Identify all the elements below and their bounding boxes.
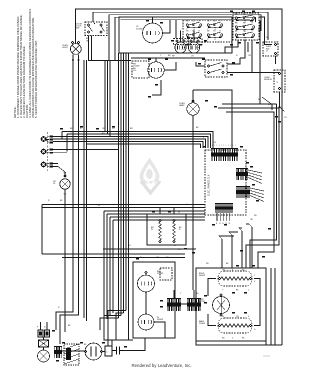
wire lamp loop bbox=[152, 80, 161, 95]
infinite switch block S2 bbox=[233, 13, 259, 40]
wire P2 pin 1 bbox=[216, 213, 218, 221]
infinite switch S2a bbox=[235, 14, 255, 24]
splice dots bbox=[72, 59, 79, 61]
oven lamp bbox=[187, 103, 199, 115]
svg-text:SW: SW bbox=[76, 28, 79, 30]
wire M row bbox=[181, 303, 187, 305]
left oven upper aux bbox=[160, 268, 172, 280]
wire top nest 2 bbox=[93, 12, 268, 40]
wire S2 down b bbox=[240, 40, 245, 58]
terminal block TB bbox=[38, 330, 50, 337]
cooktop box bbox=[119, 17, 232, 53]
wire row2 bus a bbox=[131, 57, 205, 59]
wire lamp bus bbox=[193, 90, 232, 148]
wire control to oven 2 bbox=[239, 228, 242, 268]
wire oven internal b bbox=[254, 279, 260, 326]
element LF label bbox=[136, 26, 142, 30]
wire control to oven 1 bbox=[246, 224, 252, 268]
oven sensor box bbox=[274, 70, 285, 92]
oven sensor label bbox=[264, 77, 273, 81]
wire stair h bbox=[108, 311, 126, 347]
footer artifact bbox=[263, 355, 270, 358]
oven lamp label bbox=[179, 103, 185, 107]
relay box K1 bbox=[85, 22, 107, 36]
wire S2 to right a bbox=[259, 17, 265, 40]
P2 pin labels bbox=[216, 223, 231, 225]
warming W1 label bbox=[151, 227, 154, 231]
svg-text:H2: H2 bbox=[243, 23, 245, 25]
wire control to oven 3 bbox=[229, 232, 238, 268]
wire left long c bbox=[42, 253, 185, 255]
broil element bbox=[218, 271, 252, 286]
wire band drop 3 bbox=[109, 217, 111, 316]
svg-text:J5: J5 bbox=[174, 245, 176, 247]
wire bundle D5 bbox=[128, 53, 130, 308]
wire L1 a bbox=[53, 136, 73, 138]
svg-text:W: W bbox=[97, 344, 99, 346]
convection label bbox=[198, 299, 206, 303]
lock motor label bbox=[53, 181, 56, 185]
wire bottom mid bbox=[104, 316, 112, 341]
wire diag 2 bbox=[262, 97, 272, 110]
svg-text:H2: H2 bbox=[243, 14, 245, 16]
wire lamp feed bbox=[192, 90, 194, 103]
wire cap row bbox=[112, 340, 133, 351]
infinite switch S1a bbox=[186, 21, 202, 31]
bake element bbox=[218, 318, 252, 333]
wire M2 up bbox=[193, 290, 195, 298]
left oven box bbox=[133, 262, 175, 338]
wire warm feed a bbox=[159, 208, 161, 214]
wire P2 pin 4 bbox=[226, 213, 228, 221]
wire left edge bbox=[41, 205, 43, 255]
svg-text:W: W bbox=[70, 132, 72, 134]
wire oven bottom bbox=[196, 340, 266, 342]
svg-text:H2: H2 bbox=[192, 21, 194, 23]
broil wire labels bbox=[222, 270, 256, 292]
wire bundle C2 bbox=[107, 60, 109, 134]
svg-text:J2: J2 bbox=[178, 212, 180, 214]
wire L2 a bbox=[53, 163, 58, 165]
warming element W1 bbox=[159, 219, 162, 242]
wire N a bbox=[53, 149, 119, 151]
wire relay fan b1 bbox=[250, 188, 264, 191]
wire band 2 bbox=[107, 213, 205, 215]
oven light L1 bbox=[70, 44, 81, 55]
svg-text:H2: H2 bbox=[213, 31, 215, 33]
svg-text:W: W bbox=[122, 310, 124, 312]
wire bottom long bbox=[124, 338, 145, 351]
wire TB up a bbox=[40, 322, 42, 330]
wire mid b bbox=[218, 107, 279, 109]
wire bundle D4 bbox=[125, 53, 127, 311]
wire bundle D2 bbox=[120, 53, 122, 316]
element RF label bbox=[172, 56, 175, 58]
wire bottom frame bbox=[196, 344, 282, 346]
wire row2 bus b bbox=[88, 60, 131, 62]
left oven lower label bbox=[157, 317, 163, 321]
wire TB-F1 bbox=[43, 337, 45, 340]
notes text block bbox=[13, 8, 38, 118]
svg-text:3400W: 3400W bbox=[157, 319, 163, 321]
svg-text:ELEC. RANGE CLK: ELEC. RANGE CLK bbox=[208, 174, 211, 196]
wire sensor down bbox=[279, 92, 281, 107]
wire bundle H1 drop bbox=[61, 132, 63, 140]
svg-text:8: 8 bbox=[232, 270, 233, 272]
wire mid c bbox=[226, 112, 274, 230]
wire stair g bbox=[116, 313, 124, 340]
wire under warm box bbox=[103, 248, 196, 250]
P1 tiny labels bbox=[212, 145, 236, 147]
surface element LF bbox=[143, 23, 163, 43]
wire bundle A1 bbox=[72, 60, 74, 134]
wire S2 down a bbox=[225, 40, 238, 53]
door lock motor bbox=[60, 179, 70, 189]
element RF cap bbox=[174, 39, 189, 45]
electronic control box bbox=[205, 150, 246, 215]
svg-text:H2: H2 bbox=[213, 21, 215, 23]
svg-text:W: W bbox=[98, 205, 100, 207]
element LR cap bbox=[189, 39, 203, 45]
lock motor mark2 bbox=[64, 194, 67, 196]
right oven box bbox=[196, 268, 266, 345]
left oven element upper bbox=[138, 275, 155, 292]
wire stair d bbox=[86, 143, 88, 321]
warming element W2 bbox=[173, 219, 176, 242]
svg-text:W: W bbox=[222, 316, 224, 318]
wire bundle H5 bbox=[84, 142, 203, 149]
svg-text:Rendered by LeadVenture, Inc.: Rendered by LeadVenture, Inc. bbox=[132, 363, 192, 368]
wire relay fan a3 bbox=[248, 175, 262, 180]
wire light lead a bbox=[72, 55, 74, 61]
wire S3 to sensor bbox=[227, 72, 280, 74]
bottom lamp bbox=[38, 350, 50, 362]
wire left oven mid bbox=[145, 292, 147, 314]
wire mid a bbox=[222, 103, 277, 105]
wire relay fan b4 bbox=[250, 196, 264, 202]
wire S1 to LR bbox=[193, 31, 195, 43]
wire relay to bus a bbox=[88, 36, 90, 61]
wire right r2 bbox=[278, 108, 280, 240]
motor connector M1 bbox=[167, 299, 181, 312]
bake label bbox=[199, 320, 205, 325]
wire L1 top run bbox=[76, 9, 283, 345]
wire bundle D3 bbox=[123, 53, 125, 313]
fuse F1 bbox=[39, 340, 49, 347]
wire right r1 bbox=[276, 104, 278, 235]
bake wire labels bbox=[222, 316, 256, 340]
control connector P1 bbox=[211, 149, 238, 162]
wire LR feed bbox=[175, 20, 177, 38]
wire stair i bbox=[128, 308, 130, 340]
surface element RF bbox=[175, 42, 186, 53]
control relay RY1 bbox=[236, 169, 248, 181]
wire N b bbox=[53, 152, 67, 154]
wire L1 b bbox=[53, 138, 87, 140]
relay K1 contacts bbox=[87, 23, 104, 33]
wire L2 GN bbox=[53, 167, 65, 178]
wire sensor diag bbox=[280, 107, 285, 112]
wire RR top bbox=[155, 58, 157, 62]
wire left long b bbox=[42, 207, 205, 209]
oven lamp terminals bbox=[192, 100, 194, 102]
wire label blobs bbox=[52, 11, 281, 362]
svg-text:W: W bbox=[151, 229, 153, 231]
indicator light box bbox=[263, 42, 278, 56]
wire control to oven 4 bbox=[219, 236, 234, 268]
wire motor row bbox=[62, 350, 85, 352]
motor connector M2 bbox=[187, 299, 201, 312]
wire bundle B2 bbox=[86, 60, 88, 143]
wire P2 pin 2 bbox=[219, 213, 221, 221]
wire relay to bus b bbox=[91, 36, 93, 61]
warming W2 label bbox=[179, 227, 182, 231]
oven light label bbox=[62, 45, 69, 49]
wire oven right down a bbox=[270, 268, 272, 345]
wire oven internal a bbox=[208, 279, 216, 297]
svg-text:W: W bbox=[214, 142, 216, 144]
relay wire labels bbox=[86, 38, 90, 42]
svg-text:W: W bbox=[266, 37, 268, 39]
wire warm feed b bbox=[173, 208, 175, 214]
infinite switch S1d bbox=[207, 31, 223, 41]
element RR label bbox=[133, 64, 139, 73]
wire bundle D1 bbox=[118, 53, 120, 318]
wire band drop 4 bbox=[112, 220, 114, 313]
wire band 3 bbox=[110, 216, 205, 218]
wire color labels bbox=[48, 29, 287, 327]
control vertical label bbox=[208, 174, 211, 196]
svg-text:SENSOR: SENSOR bbox=[264, 79, 273, 81]
surface element RR bbox=[148, 62, 164, 78]
svg-text:W: W bbox=[140, 257, 142, 259]
left oven upper label bbox=[157, 271, 163, 275]
wire left long d bbox=[62, 257, 185, 259]
wire bundle C3 bbox=[109, 60, 111, 137]
infinite switch S1b bbox=[207, 21, 223, 31]
wire right r1 turn bbox=[250, 235, 277, 268]
wire bundle H2 drop bbox=[66, 134, 68, 152]
control connector P2 bbox=[215, 204, 233, 214]
wire bundle H4 bbox=[79, 139, 206, 148]
wire S3 left bbox=[196, 62, 205, 66]
relay K1 label bbox=[76, 24, 83, 30]
wire LF feed bbox=[152, 17, 154, 23]
infinite switch S2c bbox=[235, 31, 255, 41]
wire relay fan a2 bbox=[248, 173, 262, 177]
svg-text:2500W: 2500W bbox=[199, 323, 205, 325]
wire top nest 4 bbox=[115, 17, 256, 60]
svg-text:2: 2 bbox=[248, 290, 249, 292]
wire oven right down b bbox=[274, 268, 276, 345]
wire top nest 5 bbox=[121, 19, 250, 21]
wire bundle H1 bbox=[62, 132, 213, 149]
wire bundle B1 bbox=[83, 60, 85, 140]
wire RR right bbox=[164, 62, 176, 70]
wire lock motor down bbox=[64, 189, 66, 332]
wire P2 pin 5 bbox=[229, 213, 231, 221]
power terminal L1 bbox=[41, 136, 53, 144]
svg-text:H2: H2 bbox=[192, 31, 194, 33]
wire S3 right bbox=[227, 58, 240, 64]
svg-text:2100W: 2100W bbox=[136, 28, 142, 30]
wire relay fan b3 bbox=[250, 193, 264, 198]
element LR label bbox=[191, 56, 194, 58]
power connector CN1 bbox=[54, 347, 62, 359]
wire stair c bbox=[83, 140, 85, 318]
svg-text:6: 6 bbox=[232, 338, 233, 340]
svg-text:GY-: GY- bbox=[133, 70, 137, 72]
lock motor mark bbox=[64, 173, 67, 175]
wire S2 down c bbox=[251, 40, 253, 73]
wire bundle H3 bbox=[73, 137, 208, 149]
wire relay fan b2 bbox=[250, 191, 264, 195]
wire relay fan a4 bbox=[248, 178, 262, 184]
oven sensor terminals bbox=[277, 72, 281, 89]
wire band drop 2 bbox=[106, 214, 108, 319]
svg-text:3400W: 3400W bbox=[199, 275, 205, 277]
svg-text:5. VERIFY PROPER OPERATION AFT: 5. VERIFY PROPER OPERATION AFTER SERVICI… bbox=[34, 40, 38, 118]
wire stair a bbox=[56, 134, 73, 330]
wire band drop 1 bbox=[103, 211, 105, 322]
wire LF out bbox=[163, 20, 171, 33]
watermark flame logo bbox=[140, 158, 160, 194]
wire S1 to RF bbox=[180, 31, 182, 43]
fan motor bbox=[85, 343, 102, 360]
wire left oven out bbox=[154, 322, 165, 338]
wire band 1 bbox=[104, 210, 205, 212]
svg-text:1: 1 bbox=[254, 275, 255, 277]
wire M1 up bbox=[173, 290, 175, 298]
convection motor bbox=[213, 297, 230, 314]
terminal block dashed line bbox=[46, 132, 48, 171]
power cord bbox=[64, 344, 79, 365]
wire bundle H2 bbox=[67, 134, 211, 148]
wire stair b bbox=[60, 137, 79, 344]
broil label bbox=[199, 273, 205, 277]
wire left long a bbox=[42, 204, 205, 206]
TB labels bbox=[37, 327, 46, 329]
control relay RY2 bbox=[236, 187, 250, 199]
wire relay fan a1 bbox=[248, 170, 262, 173]
svg-text:LAMP: LAMP bbox=[179, 104, 185, 107]
wire S2 down d bbox=[247, 42, 249, 52]
wire S2 to right b bbox=[259, 20, 261, 22]
wire right long e bbox=[260, 21, 277, 104]
wire band 4 bbox=[113, 219, 205, 221]
left oven element lower bbox=[138, 314, 154, 330]
wire oven internal c bbox=[208, 314, 216, 326]
svg-text:L1: L1 bbox=[193, 39, 195, 41]
svg-text:L1: L1 bbox=[214, 39, 216, 41]
infinite switch block S1 bbox=[183, 20, 232, 42]
svg-text:H2: H2 bbox=[243, 31, 245, 33]
wire motor right bbox=[102, 351, 105, 353]
wire P2 pin 3 bbox=[222, 213, 224, 221]
bake element terminals bbox=[145, 271, 147, 273]
wire right r2 turn bbox=[246, 240, 279, 268]
indicator light terminals bbox=[266, 43, 277, 54]
element RR dash bbox=[132, 61, 149, 78]
svg-text:W: W bbox=[258, 99, 260, 101]
relay box K2 bbox=[105, 346, 112, 356]
wire stair e bbox=[100, 318, 119, 330]
power terminal L2 bbox=[41, 162, 53, 167]
wire lamp down bbox=[192, 115, 194, 290]
capacitor C1 bbox=[112, 347, 124, 355]
wire bundle H6 bbox=[87, 144, 201, 148]
wire indicator down bbox=[275, 56, 277, 64]
element LR terminals bbox=[190, 40, 199, 42]
svg-text:4: 4 bbox=[248, 316, 249, 318]
wire L1 c bbox=[53, 141, 84, 143]
infinite switch S1c bbox=[186, 31, 202, 41]
wire indicator feed bbox=[265, 40, 273, 45]
wire light lead b bbox=[78, 55, 80, 61]
infinite switch S2b bbox=[235, 23, 255, 33]
wire TB up b bbox=[46, 322, 48, 330]
surface element LR bbox=[188, 42, 199, 53]
element RF terminals bbox=[176, 40, 185, 42]
wire stair f bbox=[104, 315, 121, 317]
wire right r3 turn bbox=[258, 230, 274, 268]
wire bundle A2 bbox=[78, 60, 80, 137]
conv terminals bbox=[220, 294, 222, 316]
lock motor terminals bbox=[64, 175, 66, 177]
junction sensor bbox=[279, 106, 281, 108]
wire F1-lamp bbox=[43, 347, 45, 350]
fan motor terminals bbox=[84, 350, 102, 352]
power terminal N bbox=[41, 149, 53, 154]
wire bundle C1 bbox=[104, 60, 106, 132]
bottom labels bbox=[84, 344, 99, 346]
P1 pin labels bbox=[0, 0, 1, 1]
wire top nest 3 bbox=[109, 15, 261, 60]
switch S3 contacts bbox=[207, 63, 224, 74]
oven light terminals bbox=[71, 41, 79, 43]
svg-text:LIGHT: LIGHT bbox=[62, 47, 69, 49]
switch S3 box bbox=[205, 60, 227, 77]
warming drawer box bbox=[147, 214, 186, 245]
